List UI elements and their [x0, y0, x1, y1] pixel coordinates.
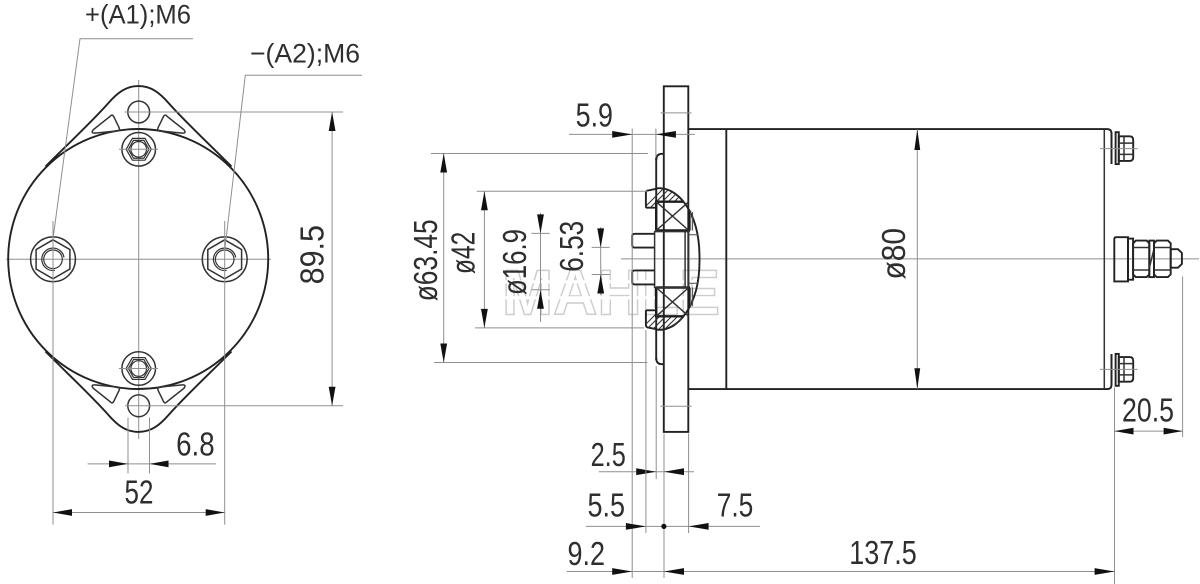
- bottom mounting ear: [46, 352, 232, 432]
- terminal nut 1: [1133, 241, 1149, 278]
- top bearing cross: [656, 202, 689, 231]
- svg-text:6.8: 6.8: [176, 426, 215, 463]
- dim 20.5 arrows: [1115, 428, 1183, 435]
- svg-text:7.5: 7.5: [717, 487, 754, 524]
- top mounting ear: [46, 86, 232, 166]
- dim phi80 line: [916, 129, 918, 389]
- svg-text:ø63.45: ø63.45: [407, 219, 444, 301]
- dim phi63.45 extension lines: [431, 154, 648, 363]
- cylinder left seam: [725, 129, 727, 389]
- top bearing box: [656, 202, 689, 231]
- hub inner line: [684, 232, 686, 288]
- top ear cutout left: [92, 115, 119, 133]
- dim 5.9 arrows: [612, 131, 676, 138]
- svg-text:ø16.9: ø16.9: [496, 229, 533, 295]
- dim 5.5 arrow: [626, 523, 646, 530]
- dim 5.5/7.5 line: [586, 525, 760, 527]
- top bolt inner hexagon: [128, 140, 149, 158]
- dim phi80 arrows: [914, 129, 920, 389]
- left bolt thread circle: [44, 250, 63, 269]
- dim phi16.9 tick lines: [531, 233, 549, 289]
- gasket sheet bottom curl: [656, 358, 664, 364]
- dim 7.5 arrow: [689, 523, 709, 530]
- svg-text:9.2: 9.2: [568, 535, 606, 572]
- dim 137.5 right arrow: [1095, 568, 1115, 575]
- top through-bolt washer: [1116, 132, 1119, 164]
- top bolt inner circle: [131, 142, 147, 158]
- svg-text:89.5: 89.5: [294, 225, 331, 284]
- top through-bolt head lines: [1119, 136, 1133, 161]
- dim 6.53 arrows: [597, 228, 604, 293]
- right bolt A2 outer circle: [202, 237, 247, 282]
- flange plate top hole centerline: [661, 112, 692, 114]
- top through-bolt head: [1119, 136, 1133, 161]
- top bolt centerline: [119, 148, 158, 150]
- dim 20.5 line: [1115, 430, 1183, 432]
- motor body circle: [8, 129, 268, 389]
- left bolt thread arc: [42, 248, 64, 270]
- motor cylinder bottom edge: [688, 354, 1111, 389]
- dim phi42 arrows: [481, 191, 488, 328]
- dim 89.5 arrows: [329, 112, 336, 406]
- dim phi16.9 line: [540, 213, 542, 322]
- dim 5.9 line: [569, 133, 695, 135]
- top ear cutout right: [158, 115, 185, 133]
- bottom bearing retainer hatching: [638, 302, 696, 346]
- motor cylinder top edge: [688, 129, 1111, 164]
- svg-text:−(A2);M6: −(A2);M6: [250, 39, 360, 69]
- dim 5.5/7.5 extension lines: [646, 330, 689, 533]
- cylinder end cap seam: [1103, 129, 1105, 389]
- shaft lower tab: [632, 270, 654, 284]
- gasket sheet left edge lower: [655, 287, 657, 360]
- dim phi16.9 arrows: [537, 214, 544, 308]
- bearing dome arc: [657, 188, 700, 330]
- dim phi63.45 line: [443, 154, 445, 363]
- side view horizontal centerline: [621, 258, 1199, 260]
- terminal stud end: [1171, 249, 1182, 268]
- svg-text:52: 52: [125, 474, 154, 511]
- terminal insulator: [1128, 239, 1133, 280]
- svg-text:5.9: 5.9: [576, 97, 613, 134]
- terminal nut 1 chamfer lines: [1133, 248, 1149, 271]
- top tip hole: [128, 101, 150, 123]
- top bearing boss step: [689, 211, 699, 235]
- svg-text:2.5: 2.5: [591, 436, 626, 473]
- terminal lock washer diagonal: [1149, 249, 1154, 268]
- left bolt vertical centerline: [52, 221, 54, 525]
- bottom tip hole: [128, 395, 150, 417]
- dim 5.9 extension line left: [631, 129, 633, 579]
- terminal lock washer: [1149, 241, 1154, 278]
- bottom bolt M6 outer circle: [122, 352, 156, 386]
- dim phi42 line: [483, 191, 485, 328]
- bottom through-bolt centerline: [1100, 368, 1138, 370]
- svg-text:+(A1);M6: +(A1);M6: [85, 0, 191, 29]
- dim 89.5 bottom extension line: [160, 405, 343, 407]
- front view horizontal centerline: [6, 258, 271, 260]
- watermark MAHLE: [502, 257, 720, 329]
- gasket sheet left edge upper: [655, 158, 657, 232]
- terminal base block: [1114, 237, 1128, 281]
- front view vertical centerline: [138, 80, 140, 439]
- terminal nut 2: [1154, 241, 1171, 278]
- dim chain dot: [661, 524, 666, 529]
- svg-text:ø80: ø80: [875, 228, 912, 279]
- dim 89.5 top extension line: [162, 111, 344, 113]
- bottom bearing boss step: [689, 283, 699, 307]
- svg-text:ø42: ø42: [445, 232, 482, 274]
- left bolt A1 outer circle: [31, 237, 76, 282]
- dim 2.5 line: [599, 471, 694, 473]
- right bolt thread arc: [213, 248, 235, 270]
- right bolt thread circle: [215, 250, 234, 269]
- bottom through-bolt head lines: [1119, 357, 1133, 382]
- gasket sheet top curl: [656, 154, 664, 160]
- top bearing retainer outline: [646, 189, 658, 208]
- dim phi42 extension lines: [475, 191, 648, 328]
- bottom bolt inner circle: [131, 361, 147, 377]
- dim 20.5 extension lines: [1115, 277, 1183, 584]
- bottom bolt centerline: [119, 368, 158, 370]
- bottom through-bolt head: [1119, 357, 1133, 382]
- dim 2.5 arrows: [636, 468, 684, 475]
- bottom ear cutout right: [158, 385, 185, 403]
- bottom tip hole centerline: [125, 405, 160, 407]
- flange plate bottom hole centerline: [661, 405, 692, 407]
- dim 5.9 extension line right: [655, 129, 657, 158]
- svg-text:5.5: 5.5: [588, 487, 626, 524]
- right bolt vertical centerline: [224, 221, 226, 525]
- dim 52 line: [53, 512, 225, 514]
- dim 6.53 tick lines: [592, 247, 610, 274]
- bottom bearing cross: [656, 288, 689, 317]
- bottom bearing retainer outline: [646, 310, 658, 329]
- dim 137.5 left arrow: [664, 568, 684, 575]
- end cap top crimp: [1111, 134, 1113, 164]
- shaft upper tab: [632, 234, 654, 248]
- left bolt hexagon: [36, 240, 70, 279]
- top through-bolt centerline: [1100, 148, 1138, 150]
- leader line for -(A2): [225, 75, 362, 248]
- dim phi63.45 arrows: [440, 154, 447, 363]
- dim 2.5 extension lines: [656, 366, 664, 578]
- top bolt hexagon: [126, 138, 151, 160]
- dim 52 arrows: [53, 509, 225, 516]
- bottom bolt hexagon: [126, 358, 151, 380]
- bottom through-bolt washer: [1116, 354, 1119, 386]
- leader line for +(A1): [53, 39, 193, 237]
- terminal nut 2 chamfer lines: [1154, 248, 1171, 271]
- bottom bearing box: [656, 288, 689, 317]
- bottom bolt inner hexagon: [128, 360, 149, 378]
- dim 6.8 line: [88, 463, 216, 465]
- hub block: [655, 232, 689, 288]
- right bolt hexagon: [208, 240, 242, 279]
- mounting flange plate: [664, 86, 689, 432]
- end cap bottom crimp: [1111, 354, 1113, 385]
- top tip hole centerline: [125, 111, 162, 113]
- dim 9.2 arrow: [612, 568, 632, 575]
- top bolt M6 outer circle: [122, 133, 156, 167]
- svg-text:20.5: 20.5: [1122, 392, 1174, 429]
- dim 6.8 extension lines: [128, 418, 150, 474]
- dim 6.8 arrows: [109, 461, 169, 468]
- dim 89.5 line: [331, 112, 333, 406]
- svg-text:6.53: 6.53: [553, 221, 590, 272]
- dim 6.53 line: [600, 227, 602, 295]
- dim 9.2/137.5 line: [567, 571, 1115, 573]
- top bearing retainer hatching: [638, 188, 692, 228]
- bottom ear cutout left: [92, 385, 119, 403]
- svg-text:137.5: 137.5: [849, 534, 917, 571]
